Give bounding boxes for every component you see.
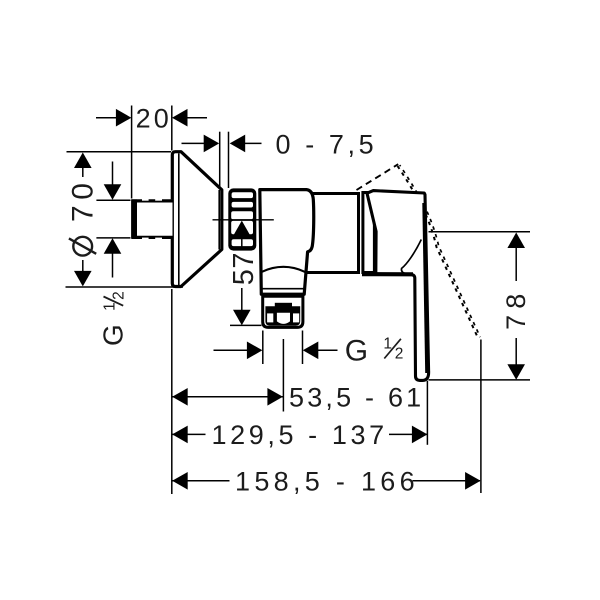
svg-text:129,5 - 137: 129,5 - 137 — [212, 420, 388, 450]
G1/2 bottom dim lines — [214, 349, 248, 351]
dim 20 lines — [96, 117, 117, 119]
svg-text:70: 70 — [67, 178, 100, 222]
left ext line (wall plane) — [171, 289, 173, 494]
label G 1/2 left (rotated) — [97, 288, 128, 346]
svg-text:G: G — [97, 321, 128, 346]
129.5-137 arrows — [172, 426, 188, 444]
svg-text:1: 1 — [383, 336, 395, 353]
20 arrows — [116, 109, 131, 127]
hub bottom thick edge — [362, 272, 413, 276]
G1/2 bottom ext lines — [262, 331, 264, 365]
svg-text:20: 20 — [136, 104, 172, 134]
escutcheon flange — [172, 152, 222, 287]
svg-text:2: 2 — [395, 346, 407, 363]
diameter symbol — [73, 237, 92, 256]
0-7.5 arrows — [204, 135, 220, 153]
blade inner thin line — [424, 203, 427, 373]
dia70 extension lines — [67, 151, 172, 153]
dim 78 ext lines — [429, 231, 531, 233]
outlet cup — [263, 296, 303, 327]
svg-text:G: G — [345, 335, 372, 368]
158.5-166 arrows — [172, 472, 188, 490]
cartridge cover (rear housing) — [306, 194, 359, 273]
svg-text:2: 2 — [111, 288, 128, 300]
dashed line A (tilted handle top edge) — [357, 164, 399, 190]
outlet centre ext line — [282, 339, 284, 412]
svg-text:53,5 - 61: 53,5 - 61 — [289, 382, 424, 412]
dim 53.5-61 line — [172, 396, 283, 398]
dia70 arrows — [74, 153, 92, 169]
body lower thin line — [262, 288, 304, 290]
G1/2 bottom arrows — [247, 342, 263, 360]
svg-text:158,5 - 166: 158,5 - 166 — [235, 466, 419, 496]
valve body — [260, 190, 314, 295]
right ext line (handle tip) — [426, 381, 428, 445]
G1/2 left ticks — [96, 199, 130, 201]
dim 0-7.5 extension lines — [219, 132, 221, 190]
53.5-61 arrows — [172, 388, 188, 406]
dim 158.5-166 lines — [172, 480, 229, 482]
57 arrows — [233, 221, 251, 237]
dim 57 bottom tick — [230, 324, 262, 326]
knurled union nut — [228, 188, 256, 250]
arrowheads — [74, 109, 525, 490]
dim 78 line — [515, 248, 517, 281]
right ext line (dashed arc end) — [480, 340, 482, 494]
dim 20 extension lines — [131, 106, 133, 199]
svg-text:0 - 7,5: 0 - 7,5 — [276, 129, 378, 159]
dim 129.5-137 lines — [172, 433, 205, 435]
thumb rest crescent — [401, 240, 421, 274]
centerline — [213, 219, 274, 221]
78 arrows — [507, 233, 525, 249]
G1/2 left dim line — [112, 162, 114, 185]
handle hub and blade — [367, 191, 429, 381]
dashed arc B (tilted handle blade sweep, doubled dashes) — [398, 166, 479, 338]
threaded wall nipple — [131, 199, 172, 240]
body shoulder arch — [262, 267, 305, 272]
dia70 dim line — [82, 168, 84, 177]
dim 0-7.5 lines — [182, 142, 205, 144]
dim 57 line — [241, 236, 243, 249]
G1/2 left arrows — [104, 184, 122, 200]
svg-text:78: 78 — [501, 288, 531, 330]
svg-text:57: 57 — [228, 252, 260, 285]
handle neck — [363, 193, 375, 273]
